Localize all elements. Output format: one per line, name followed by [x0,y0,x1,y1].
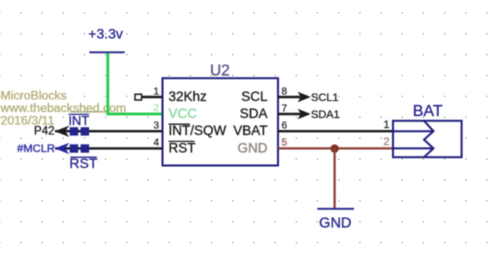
wire U2 pin 5 to BAT pin 2 (GND net) [278,147,393,149]
ground bar [317,208,354,210]
svg-text:SDA1: SDA1 [311,109,340,121]
arrow into #MCLR [55,143,70,154]
connector BAT contact zigzag [424,121,434,157]
net tag squares on INT row [70,127,79,135]
U2 pin 1 stub wire [142,96,163,98]
wire VCC horizontal green segment to U2 pin 2 [106,113,162,116]
op-amp U2 body box [163,78,279,165]
svg-text:SCL: SCL [241,89,268,104]
svg-text:VBAT: VBAT [233,123,267,138]
connector BAT pin 1 line [393,130,434,132]
wire VCC vertical green segment [106,53,109,114]
svg-text:U2: U2 [210,62,230,79]
unconnected end marker on pin 1 [135,94,142,100]
connector BAT pin 2 line [393,147,434,149]
svg-text:5: 5 [282,137,288,148]
wire U2 pin 8 to SCL1 [278,96,301,98]
svg-text:GND: GND [238,140,268,155]
arrow to SDA1 [298,109,311,120]
svg-text:SDA: SDA [240,106,268,121]
overline of INT on U2 label [169,123,191,125]
svg-text:BAT: BAT [413,103,443,120]
wire U2 pin 6 to BAT pin 1 [278,130,393,132]
svg-text:32Khz: 32Khz [169,89,208,104]
svg-text:INT/SQW: INT/SQW [169,123,227,138]
wire RST net to U2 pin 4 [55,147,163,149]
svg-text:#MCLR: #MCLR [17,143,55,155]
net tag squares on RST row [70,144,79,152]
svg-text:RST: RST [169,140,196,155]
svg-text:1: 1 [383,119,389,131]
overline of RST on U2 label [169,140,195,142]
watermark underline [71,111,110,113]
svg-text:INT: INT [68,113,89,128]
overline of INT net label [69,113,89,115]
arrow into P42 [55,126,70,137]
connector BAT body [393,121,462,157]
wire junction down to ground symbol [333,148,335,208]
arrow to SCL1 [298,92,311,103]
overline of RST net label [70,156,97,158]
wire U2 pin 7 to SDA1 [278,113,301,115]
svg-text:GND: GND [319,216,351,232]
svg-text:1: 1 [153,87,159,98]
svg-text:SCL1: SCL1 [311,92,339,104]
svg-text:3: 3 [153,120,159,131]
svg-text:2: 2 [383,136,389,148]
svg-text:+3.3v: +3.3v [88,26,123,42]
svg-text:6: 6 [282,120,288,131]
svg-text:4: 4 [153,137,159,148]
wire INT net to U2 pin 3 [55,130,163,132]
junction on GND net [330,144,338,152]
svg-text:P42: P42 [34,126,54,138]
svg-text:2: 2 [153,103,159,114]
power symbol +3.3v rail bar [89,51,124,53]
svg-text:VCC: VCC [169,106,198,121]
